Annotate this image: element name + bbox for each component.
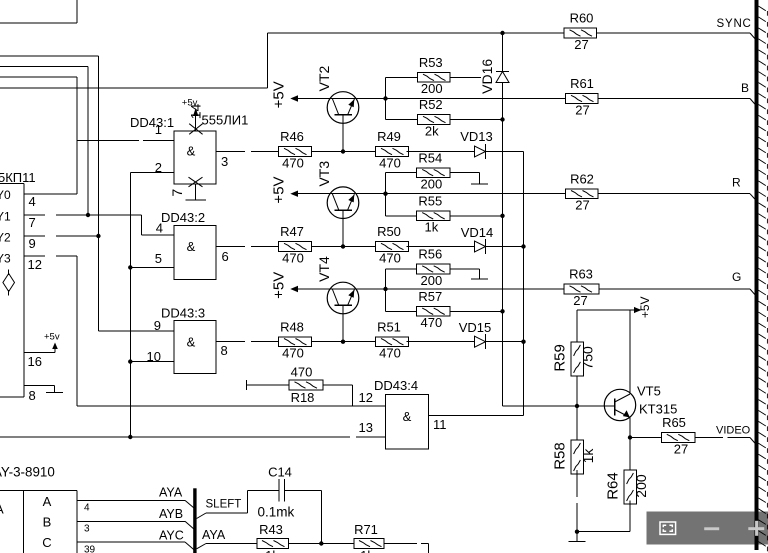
svg-text:R52: R52	[419, 97, 443, 112]
svg-text:200: 200	[420, 176, 442, 191]
+5V arrow feed VT3	[271, 176, 386, 203]
label 14 (rotated)	[188, 104, 204, 120]
resistor R53 (200)	[418, 55, 451, 96]
svg-text:R59: R59	[551, 344, 568, 372]
svg-text:G: G	[732, 270, 741, 284]
IC pin 16 wire	[24, 352, 55, 354]
label VD16 (rotated)	[479, 59, 495, 94]
label KT315	[639, 402, 677, 417]
wire AY pin C	[77, 542, 194, 550]
svg-text:R46: R46	[280, 129, 304, 144]
IC label 5КП11	[0, 170, 36, 185]
svg-text:1k: 1k	[360, 548, 374, 553]
pin number 12 (DD43:4)	[359, 390, 373, 405]
wire VD13 to blank vertical	[486, 151, 524, 153]
resistor R61 (27)	[566, 76, 599, 117]
label 0.1mk	[258, 505, 295, 520]
resistor R65 (27)	[661, 415, 695, 456]
wire R49 to VD13	[407, 151, 475, 153]
svg-text:9: 9	[154, 318, 161, 333]
label R	[732, 176, 741, 190]
svg-text:DD43:4: DD43:4	[374, 378, 418, 393]
ground at R56	[471, 269, 488, 279]
resistor R63 (27)	[564, 267, 599, 308]
resistor R64 (200)	[604, 470, 648, 504]
wire VD15 to blank vertical	[486, 340, 526, 344]
wire Y0 (pin4) to riser	[24, 77, 77, 194]
wire Y2 to DD43:3 pin9	[98, 330, 174, 332]
wire to R55	[386, 215, 417, 217]
IC pin number 9	[29, 236, 36, 251]
wire R59 top	[576, 310, 578, 342]
svg-text:2: 2	[155, 160, 162, 175]
svg-text:3: 3	[84, 524, 90, 535]
svg-text:R53: R53	[419, 55, 443, 70]
svg-text:R18: R18	[291, 390, 315, 405]
svg-text:470: 470	[282, 346, 304, 361]
+5V arrow feed VT4	[271, 272, 386, 299]
wire to R52	[386, 119, 418, 121]
wire R row	[386, 194, 755, 199]
IC pin label Y1	[0, 210, 11, 224]
terminal stub left of R18	[247, 380, 290, 390]
svg-text:R60: R60	[570, 11, 594, 26]
svg-text:7: 7	[169, 189, 185, 197]
label VD13	[460, 129, 493, 144]
IC pin number 12	[28, 257, 42, 272]
diode VD16	[496, 72, 509, 83]
resistor R47 (470)	[279, 224, 312, 265]
wire DD43:1 output 3	[216, 151, 279, 153]
label VD14	[461, 225, 494, 240]
label VT3 (rotated)	[316, 161, 332, 187]
label DD43:2	[161, 210, 205, 225]
node VT3 base riser	[342, 210, 344, 246]
capacitor C14	[279, 479, 285, 502]
svg-text:C: C	[42, 535, 51, 550]
svg-text:DD43:3: DD43:3	[161, 306, 205, 321]
svg-text:VT3: VT3	[316, 161, 332, 187]
svg-text:Y1: Y1	[0, 210, 11, 224]
svg-text:27: 27	[573, 293, 587, 308]
svg-text:11: 11	[433, 417, 447, 432]
ground at R58	[569, 532, 586, 542]
node VT2 base riser	[342, 115, 344, 152]
svg-text:DD43:2: DD43:2	[161, 210, 205, 225]
resistor R48 (470)	[279, 319, 312, 360]
fullscreen icon	[660, 522, 676, 534]
svg-text:3: 3	[221, 154, 228, 169]
svg-text:AYA: AYA	[202, 528, 226, 542]
wire R51 to VD15	[407, 341, 475, 343]
connector hatching	[759, 6, 768, 551]
svg-text:555ЛИ1: 555ЛИ1	[202, 113, 249, 128]
resistor R51 (470)	[376, 319, 409, 360]
IC AY left label fragment	[0, 502, 4, 517]
wire to R57	[386, 310, 417, 312]
resistor R57 (470)	[417, 289, 450, 330]
svg-text:VD15: VD15	[459, 320, 492, 335]
svg-text:VT4: VT4	[316, 256, 332, 282]
label 555ЛИ1	[202, 113, 249, 128]
resistor R60 (27)	[564, 11, 597, 52]
wire R59 bottom	[575, 376, 579, 408]
svg-text:+5V: +5V	[271, 81, 288, 108]
transistor VT4	[327, 282, 359, 314]
resistor R49 (470)	[376, 129, 409, 170]
zoom overlay panel	[647, 512, 768, 545]
svg-text:4: 4	[29, 194, 36, 209]
node VT3 emitter junction	[383, 192, 387, 196]
resistor R18 (470)	[289, 364, 323, 405]
wire to R53	[386, 76, 418, 78]
svg-text:R47: R47	[280, 224, 304, 239]
+5v arrow at pin 16	[44, 332, 60, 353]
wire R46-R49 row	[312, 149, 376, 153]
diode VD13	[475, 144, 486, 159]
svg-text:R57: R57	[418, 289, 442, 304]
svg-text:1k: 1k	[580, 448, 596, 464]
wire VT3 junction risers	[385, 173, 387, 216]
resistor R46 (470)	[279, 129, 312, 170]
pin number 9 (DD43:3)	[154, 318, 161, 333]
diode VD15	[475, 334, 486, 349]
zoom out icon	[704, 527, 719, 530]
label B	[741, 81, 749, 95]
svg-text:R54: R54	[418, 150, 442, 165]
pin number 8 (DD43:3)	[221, 343, 228, 358]
svg-text:R43: R43	[259, 522, 283, 537]
wire R58 bottom	[575, 470, 579, 534]
svg-text:4: 4	[84, 503, 90, 514]
AY pin number 39	[84, 545, 96, 553]
transistor VT2	[327, 92, 359, 124]
DD43:1 pin 7 gnd stub	[195, 184, 197, 200]
svg-text:470: 470	[291, 364, 313, 379]
resistor R50 (470)	[376, 224, 409, 265]
wire to R54	[386, 172, 417, 174]
pin number 13	[359, 420, 373, 435]
svg-text:&: &	[403, 409, 412, 424]
svg-text:R56: R56	[418, 247, 442, 262]
wire Y1 top L (y=66)	[0, 65, 88, 67]
svg-text:Y3: Y3	[0, 252, 11, 266]
svg-text:B: B	[741, 81, 749, 95]
+5V arrow feed VT2	[271, 81, 386, 108]
wire R64 bottom	[577, 500, 630, 531]
wire R18 to pin12 line	[323, 385, 353, 406]
svg-text:AY-3-8910: AY-3-8910	[0, 465, 55, 480]
wire R52 to sync vertical	[450, 117, 505, 121]
wire Y3 (pin12)	[24, 255, 77, 257]
zoom in icon	[748, 521, 764, 536]
svg-text:10: 10	[147, 349, 161, 364]
label SLEFT	[206, 499, 242, 511]
AND gate DD43:1	[174, 131, 216, 184]
svg-text:R65: R65	[662, 415, 686, 430]
wire to R56	[386, 268, 417, 270]
svg-text:R50: R50	[377, 224, 401, 239]
transistor VT5	[604, 389, 635, 420]
svg-text:AYA: AYA	[159, 486, 183, 500]
wire VIDEO row	[630, 438, 755, 444]
wire DD43:2 output 6	[216, 246, 279, 248]
node VT4 base riser	[342, 306, 344, 342]
IC pin number 16	[28, 354, 42, 369]
label AY-3-8910	[0, 465, 55, 480]
wire R55 to sync vertical	[450, 214, 505, 218]
svg-text:13: 13	[359, 420, 373, 435]
wire DD43:3 output 8	[216, 341, 279, 343]
label VT2 (rotated)	[316, 65, 332, 91]
pin number 2	[155, 160, 162, 175]
wire R54 to ground	[450, 172, 480, 174]
svg-text:B: B	[43, 515, 52, 530]
svg-text:AYC: AYC	[159, 529, 184, 543]
wire sync feed (y=88 to riser x=267)	[0, 33, 268, 88]
svg-text:1: 1	[155, 122, 162, 137]
wire R53 to VD16	[450, 76, 481, 78]
label G	[732, 270, 741, 284]
top-left block outline	[0, 0, 77, 23]
svg-text:Y0: Y0	[0, 188, 11, 202]
svg-text:27: 27	[575, 198, 589, 213]
wire DD43:3 pin10	[128, 359, 174, 363]
svg-text:470: 470	[379, 346, 401, 361]
svg-text:470: 470	[420, 315, 442, 330]
svg-text:39: 39	[84, 545, 96, 553]
AY pin number 3	[84, 524, 90, 535]
resistor R55 (1k)	[417, 194, 450, 235]
wire DD43:1 pin2	[130, 171, 174, 173]
svg-text:470: 470	[282, 155, 304, 170]
svg-text:R51: R51	[377, 319, 401, 334]
pin number 3	[221, 154, 228, 169]
svg-text:A: A	[0, 502, 4, 517]
AY pin number 4	[84, 503, 90, 514]
svg-text:470: 470	[282, 250, 304, 265]
node VT2 emitter junction	[383, 96, 387, 100]
AND gate DD43:4	[386, 394, 429, 449]
IC pin 8 wire (GND)	[24, 384, 55, 386]
svg-text:DD43:1: DD43:1	[130, 115, 174, 130]
label B (AY)	[43, 515, 52, 530]
svg-text:+5V: +5V	[271, 176, 288, 203]
svg-text:VD14: VD14	[461, 225, 494, 240]
label AYA (right)	[202, 528, 226, 542]
label VD15	[459, 320, 492, 335]
wire blanking vertical x=523.5	[523, 152, 525, 416]
label C (AY)	[42, 535, 51, 550]
svg-text:R48: R48	[280, 319, 304, 334]
label VIDEO	[716, 425, 751, 437]
svg-text:&: &	[187, 335, 196, 350]
resistor R43	[257, 522, 288, 553]
IC decoder diamond symbol	[3, 270, 15, 296]
label AYA	[159, 486, 183, 500]
wire R47-R50 row	[312, 244, 376, 248]
node VT4 emitter junction	[383, 287, 387, 291]
resistor R71	[354, 522, 384, 553]
wire Y0 top L (y=77)	[0, 76, 77, 78]
label VT4 (rotated)	[316, 256, 332, 282]
svg-text:200: 200	[420, 273, 442, 288]
wire R64 top	[629, 438, 631, 471]
IC DD (555КП11) box	[0, 184, 24, 398]
svg-text:7: 7	[29, 215, 36, 230]
wire R58 top	[576, 406, 578, 440]
wire Y2 top L (y=56)	[0, 55, 98, 57]
svg-text:R: R	[732, 176, 741, 190]
AND gate DD43:2	[174, 226, 216, 280]
pin number 4 (DD43:2)	[156, 221, 163, 236]
svg-text:14: 14	[188, 104, 204, 120]
svg-text:+5V: +5V	[271, 272, 288, 299]
ground at IC pin 8	[46, 385, 63, 392]
svg-text:200: 200	[633, 474, 649, 498]
svg-text:R62: R62	[570, 171, 594, 186]
connector bar	[755, 0, 759, 550]
resistor R59 (750)	[551, 342, 595, 376]
svg-text:+5v: +5v	[44, 332, 60, 343]
wire AY pin A	[77, 500, 194, 508]
label AYC	[159, 529, 184, 543]
wire SLEFT	[197, 491, 279, 519]
svg-text:27: 27	[574, 37, 588, 52]
svg-text:R49: R49	[377, 129, 401, 144]
IC pin label Y2	[0, 231, 11, 245]
wire AYA out	[197, 544, 257, 549]
wire Y3 riser down	[76, 256, 78, 406]
svg-text:R64: R64	[604, 472, 621, 500]
svg-text:27: 27	[674, 441, 688, 456]
resistor R54 (200)	[417, 150, 450, 191]
svg-text:5КП11: 5КП11	[0, 170, 36, 185]
label 7 (rotated)	[169, 189, 185, 197]
svg-text:&: &	[187, 144, 196, 159]
pin number 10	[147, 349, 161, 364]
wire Y1 to DD43:2 pin4	[142, 215, 174, 235]
wire R57 to sync vertical	[450, 309, 505, 313]
wire bus horizontal to DD43:4 pin13	[0, 435, 386, 439]
transistor VT3	[327, 187, 359, 219]
wire DD43:2 pin5	[128, 265, 174, 269]
svg-text:VD13: VD13	[460, 129, 493, 144]
svg-text:12: 12	[28, 257, 42, 272]
svg-text:1k: 1k	[424, 220, 438, 235]
wire VT5 collector	[629, 310, 631, 394]
label C14	[268, 465, 292, 480]
label A	[43, 494, 52, 509]
svg-text:470: 470	[379, 250, 401, 265]
pin number 11	[433, 417, 447, 432]
svg-text:&: &	[187, 239, 196, 254]
IC AY box	[0, 490, 77, 553]
svg-text:VIDEO: VIDEO	[716, 425, 751, 437]
pin number 1	[155, 122, 162, 137]
svg-text:6: 6	[222, 249, 229, 264]
wire G row	[386, 289, 755, 295]
IC pin label Y3	[0, 252, 11, 266]
wire DD43:4 output 11	[428, 414, 523, 416]
wire VD14 to blank vertical	[486, 244, 526, 248]
svg-text:VT2: VT2	[316, 65, 332, 91]
ground at R54	[471, 173, 488, 185]
svg-text:AYB: AYB	[159, 507, 183, 521]
wire sync vertical x=502.5	[500, 31, 504, 406]
diode VD14	[475, 239, 486, 254]
svg-text:8: 8	[29, 388, 36, 403]
svg-text:C14: C14	[268, 465, 292, 480]
resistor R56 (200)	[417, 247, 450, 288]
label VT5	[637, 384, 661, 399]
svg-text:8: 8	[221, 343, 228, 358]
svg-text:A: A	[43, 494, 52, 509]
svg-text:0.1mk: 0.1mk	[258, 505, 295, 520]
wire B row	[386, 99, 755, 105]
resistor R52 (2k)	[418, 97, 451, 138]
IC pin number 7	[29, 215, 36, 230]
svg-text:Y2: Y2	[0, 231, 11, 245]
svg-text:470: 470	[379, 155, 401, 170]
resistor R58 (1k)	[551, 440, 595, 474]
label SYNC	[717, 18, 752, 30]
svg-text:1k: 1k	[265, 548, 279, 553]
wire R43 to R71	[288, 543, 354, 545]
wire C14 right to R43 row	[285, 491, 324, 546]
wire Y3 to DD43:4 pin12	[77, 405, 386, 407]
svg-text:VD16: VD16	[479, 59, 495, 94]
IC pin number 8	[29, 388, 36, 403]
X mark pin 7	[189, 177, 203, 187]
svg-text:+5V: +5V	[638, 296, 652, 318]
svg-text:SYNC: SYNC	[717, 18, 752, 30]
wire VT2 junction risers	[385, 77, 387, 119]
svg-text:R58: R58	[551, 442, 568, 470]
svg-text:5: 5	[155, 251, 162, 266]
IC pin number 4	[29, 194, 36, 209]
svg-text:VT5: VT5	[637, 384, 661, 399]
AND gate DD43:3	[174, 321, 216, 374]
label DD43:4	[374, 378, 418, 393]
wire R50 to VD14	[407, 246, 475, 248]
svg-text:12: 12	[359, 390, 373, 405]
wire VT5 emitter	[628, 418, 632, 440]
svg-text:200: 200	[421, 81, 443, 96]
svg-text:R63: R63	[569, 267, 593, 282]
svg-text:27: 27	[575, 102, 589, 117]
svg-text:750: 750	[580, 346, 596, 370]
wire R71 right	[384, 544, 429, 553]
IC pin label Y0	[0, 188, 11, 202]
wire R48-R51 row	[312, 340, 376, 344]
label DD43:3	[161, 306, 205, 321]
svg-text:2k: 2k	[425, 123, 439, 138]
label AYB	[159, 507, 183, 521]
X mark pin 14	[189, 124, 202, 135]
wire AY pin B	[77, 521, 194, 529]
wire bus vertical x=130	[129, 172, 131, 437]
wire Y1 (pin7)	[24, 66, 142, 217]
wire VT5 base line	[503, 405, 615, 407]
svg-text:9: 9	[29, 236, 36, 251]
svg-text:R71: R71	[354, 522, 378, 537]
svg-text:R55: R55	[418, 194, 442, 209]
wire SYNC row	[268, 33, 755, 39]
svg-text:4: 4	[156, 221, 163, 236]
DD43:1 pin 14 +5v stub	[182, 98, 199, 131]
ground at DD43:1 pin 7	[185, 199, 206, 201]
